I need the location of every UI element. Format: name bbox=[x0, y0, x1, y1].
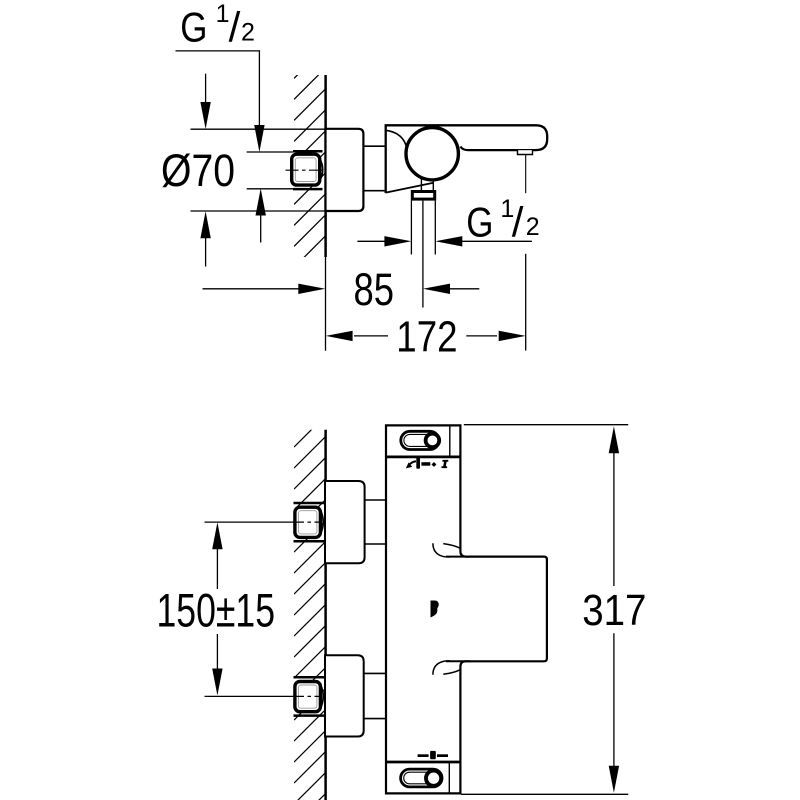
neck between escutcheon and body bbox=[363, 145, 386, 147]
172 right arrow bbox=[499, 331, 526, 341]
172 left arrow bbox=[326, 331, 353, 341]
85 dimension line left part w/ arrow to wall bbox=[203, 288, 311, 290]
icons row above bottom cap bbox=[418, 751, 448, 759]
top slot knob ring bbox=[426, 434, 440, 448]
leader line from G1/2 label bbox=[176, 51, 260, 140]
mid protrusion top edge bbox=[446, 556, 470, 558]
wall surface line (top) bbox=[324, 75, 327, 257]
thermostat body (front view) bbox=[386, 425, 547, 793]
svg-text:/: / bbox=[512, 198, 524, 245]
top cap divider line bbox=[449, 425, 451, 457]
150 dim upper arrow bbox=[212, 522, 222, 549]
upper escutcheon (front view) bbox=[325, 481, 365, 563]
union flange bottom line bbox=[293, 188, 323, 191]
extension line: wall surface extended down bbox=[325, 257, 327, 351]
logo mark bbox=[431, 601, 439, 618]
upper union inner chamfer line bbox=[298, 511, 317, 534]
bottom cap top thick line bbox=[385, 761, 462, 764]
svg-text:85: 85 bbox=[354, 264, 395, 315]
shower pipe centerline + extension for 85 dim bbox=[422, 201, 424, 308]
bottom slot pill outer bbox=[401, 769, 442, 787]
wall hatch (bottom) bbox=[294, 373, 326, 800]
317 dim line upper + arrow bbox=[609, 426, 619, 453]
mid-body hook detail bottom bbox=[433, 661, 450, 675]
T mark bbox=[442, 460, 449, 468]
top slot pill inner bbox=[404, 434, 436, 446]
317 top extension line bbox=[464, 424, 628, 426]
lower union square bbox=[295, 682, 321, 712]
svg-text:2: 2 bbox=[526, 213, 540, 241]
label G1/2 (top left) bbox=[180, 0, 255, 50]
svg-text:2: 2 bbox=[241, 19, 255, 47]
G1/2 pipe dim: left segment + arrow bbox=[357, 240, 387, 242]
lower supply stub bbox=[364, 672, 386, 674]
bottom slot pill inner bbox=[404, 772, 439, 784]
150±15 lower extension line bbox=[205, 695, 295, 697]
150±15 upper extension line bbox=[205, 521, 295, 523]
mid protrusion bottom edge bbox=[446, 660, 470, 662]
150 dim lower arrow bbox=[216, 634, 218, 670]
upper union centerline dash-dot bbox=[294, 521, 319, 523]
dot bbox=[431, 462, 436, 467]
svg-text:Ø70: Ø70 bbox=[161, 145, 235, 196]
317 bottom extension line bbox=[461, 793, 628, 795]
union square body bbox=[292, 154, 320, 185]
upper union flange bottom bbox=[294, 540, 325, 543]
extension lines: G1/2 union top/bottom bbox=[247, 151, 293, 153]
body bottom diagonal edge bbox=[386, 183, 434, 193]
wall hatch (top) bbox=[294, 5, 326, 331]
mid-body hook detail top bbox=[433, 543, 450, 557]
upper union flange top bbox=[294, 502, 325, 505]
svg-text:172: 172 bbox=[396, 312, 457, 361]
bottom cap divider line bbox=[448, 762, 450, 793]
Ø70 top arrow bbox=[205, 74, 207, 110]
lower union flange bottom bbox=[294, 714, 325, 717]
extension lines: Ø70 top/bottom bbox=[191, 128, 327, 130]
arrow up to union bottom bbox=[256, 189, 266, 216]
upper union nut arc bbox=[320, 510, 323, 535]
317 dim line lower + arrow bbox=[613, 633, 615, 767]
extension line from spout outlet bbox=[525, 155, 527, 194]
lower union centerline dash-dot bbox=[294, 695, 319, 697]
svg-text:G: G bbox=[466, 198, 493, 245]
bottom slot knob ring bbox=[426, 771, 441, 786]
faucet body outline (side view) bbox=[386, 125, 548, 193]
shower pipe left edge bbox=[410, 201, 412, 255]
top cap bottom thick line bbox=[385, 456, 462, 459]
top slot pill outer bbox=[401, 431, 439, 449]
lower union nut arc bbox=[320, 684, 323, 709]
85 dimension right arrow to pipe centerline bbox=[440, 288, 479, 290]
lower union flange top bbox=[294, 676, 325, 679]
G1/2 pipe dim: right segment + arrow bbox=[462, 240, 532, 242]
icons row under top cap bbox=[406, 457, 449, 468]
extension line outlet center lower part bbox=[525, 254, 527, 351]
upper union square bbox=[295, 507, 321, 537]
svg-text:150±15: 150±15 bbox=[157, 584, 276, 637]
union inner chamfer line bbox=[295, 158, 316, 182]
dash bbox=[421, 462, 430, 466]
arrow down to union top bbox=[254, 125, 264, 152]
Ø70 bottom arrow bbox=[205, 230, 207, 267]
body inner curve detail bbox=[387, 130, 407, 147]
shower pipe right edge bbox=[434, 201, 436, 255]
label G1/2 (right, at pipe) bbox=[466, 195, 539, 245]
spray icon bbox=[406, 462, 412, 468]
svg-text:317: 317 bbox=[582, 586, 646, 635]
hose collar nut bbox=[412, 192, 434, 200]
union centerline (dash-dot) bbox=[286, 169, 323, 171]
172 dimension line bbox=[354, 335, 388, 337]
lower union inner chamfer line bbox=[298, 685, 317, 708]
escutcheon plate (side view) bbox=[326, 129, 364, 211]
svg-text:G: G bbox=[180, 3, 207, 50]
spout outlet fitting bbox=[518, 150, 533, 154]
svg-text:1: 1 bbox=[216, 0, 230, 28]
union nut arc bbox=[320, 158, 323, 181]
lower escutcheon (front view) bbox=[325, 655, 364, 736]
svg-text:/: / bbox=[229, 3, 241, 50]
lever knob circle bbox=[406, 128, 458, 180]
hose connection stubs under circle bbox=[420, 178, 422, 191]
upper supply stub bbox=[365, 499, 386, 501]
wall surface line (bottom) bbox=[324, 430, 327, 800]
union flange top line bbox=[293, 150, 323, 153]
bold bar bbox=[416, 457, 420, 468]
